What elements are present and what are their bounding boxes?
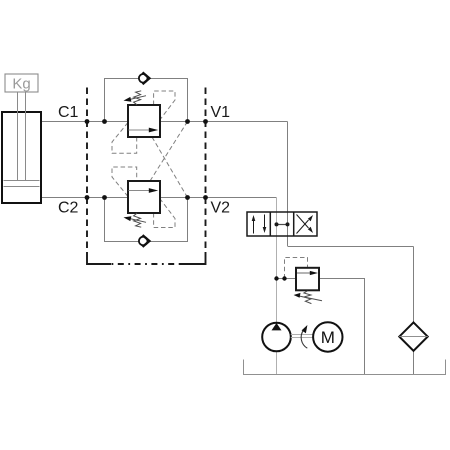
- node on V2 at boundary: [203, 195, 208, 200]
- valve block boundary bottom-left corner: [87, 252, 111, 264]
- pilot line relief valve: [285, 258, 308, 279]
- node on C1 bypass branch: [102, 119, 107, 124]
- CB1 spring: [134, 91, 142, 105]
- wire V1 down to valve: [287, 122, 289, 247]
- valve block boundary left: [86, 88, 88, 253]
- tank: [244, 360, 446, 375]
- counterbalance valve CB1 body: [128, 105, 160, 137]
- DV1 middle cell node right: [286, 222, 290, 226]
- pilot line cross X from V2 to CB1: [152, 137, 188, 198]
- pilot line pocket bottom-right CB2: [154, 200, 175, 228]
- wire check bypass bottom: [105, 198, 188, 242]
- pump P1: [262, 323, 291, 352]
- DV1 middle cell connector: [277, 224, 288, 226]
- check valve CV2: [139, 235, 150, 247]
- directional valve DV1 body: [247, 212, 317, 236]
- svg-text:V2: V2: [211, 200, 231, 217]
- rotation arrow: [301, 325, 307, 348]
- node on C2 bypass return: [185, 195, 190, 200]
- node on C2 at boundary: [85, 195, 90, 200]
- load Kg box: [5, 74, 38, 93]
- CB2 internal flow arrow: [129, 188, 159, 193]
- check valve CV1: [139, 72, 150, 84]
- relief valve RV1 body: [296, 268, 319, 291]
- CB1 internal flow arrow: [129, 128, 159, 133]
- node relief pilot on pump line: [274, 276, 278, 280]
- valve block boundary right: [205, 88, 207, 253]
- node on C1 at boundary: [85, 119, 90, 124]
- wire C2 main line: [41, 197, 277, 199]
- pilot line pocket bottom-left CB2: [112, 167, 137, 197]
- valve block boundary bottom chain: [111, 263, 180, 265]
- svg-text:M: M: [321, 328, 335, 347]
- svg-text:C2: C2: [58, 200, 79, 217]
- DV1 right cell cross arrow 1: [297, 215, 314, 234]
- wire relief pilot feed: [277, 278, 297, 280]
- pilot line pocket top-left CB1: [112, 123, 137, 154]
- CB2 spring adjust arrow: [124, 216, 147, 222]
- DV1 left cell up arrow: [252, 215, 256, 234]
- cylinder body: [2, 112, 41, 203]
- piston rod: [18, 92, 26, 181]
- wire relief outlet to tank: [319, 279, 365, 375]
- wire check bypass top: [105, 79, 188, 122]
- svg-text:V1: V1: [211, 104, 231, 121]
- node on V1 at boundary: [203, 119, 208, 124]
- DV1 left cell down arrow: [263, 215, 267, 234]
- RV1 spring adjust arrow: [294, 293, 322, 301]
- svg-text:C1: C1: [58, 104, 79, 121]
- wire filter drop line: [413, 247, 415, 375]
- motor M1: [313, 322, 342, 351]
- valve block boundary bottom-right corner: [180, 252, 206, 264]
- svg-text:Kg: Kg: [12, 76, 30, 93]
- filter F1: [399, 322, 427, 350]
- RV1 internal flow arrow: [297, 271, 318, 275]
- motor shaft: [291, 335, 313, 338]
- CB2 spring: [134, 213, 142, 227]
- node on C1 bypass return: [185, 119, 190, 124]
- wire tank line from valve to filter: [288, 246, 414, 248]
- counterbalance valve CB2 body: [128, 181, 160, 213]
- RV1 spring: [304, 291, 312, 304]
- piston: [4, 181, 40, 187]
- DV1 middle cell node left: [275, 222, 279, 226]
- pilot line cross X from V1 to CB2: [150, 122, 188, 182]
- node on C2 bypass branch: [102, 195, 107, 200]
- DV1 right cell cross arrow 2: [297, 215, 314, 234]
- wire C1 main line: [41, 121, 288, 123]
- pilot line pocket top-right CB1: [154, 91, 175, 119]
- CB1 spring adjust arrow: [124, 96, 147, 102]
- wire V2 to pump line: [276, 198, 278, 375]
- node relief pilot branch: [282, 276, 286, 280]
